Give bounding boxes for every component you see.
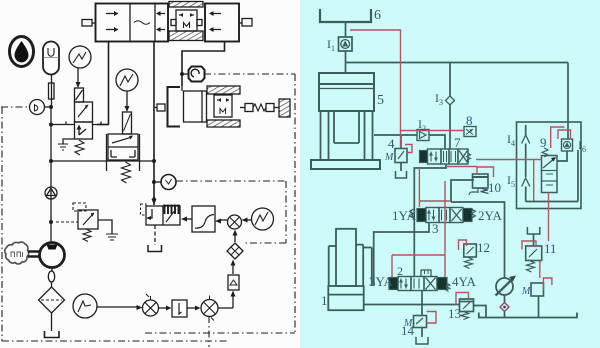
svg-text:2YA: 2YA xyxy=(478,208,502,223)
svg-text:2: 2 xyxy=(422,124,426,133)
svg-text:2: 2 xyxy=(397,264,403,278)
svg-text:12: 12 xyxy=(477,240,490,255)
svg-text:5: 5 xyxy=(511,180,515,189)
svg-text:4YA: 4YA xyxy=(452,274,476,289)
svg-text:11: 11 xyxy=(544,241,557,256)
svg-text:3YA: 3YA xyxy=(369,274,393,289)
svg-text:10: 10 xyxy=(488,180,501,195)
svg-text:M: M xyxy=(521,286,531,297)
svg-text:8: 8 xyxy=(466,113,473,128)
svg-text:9: 9 xyxy=(540,135,547,150)
svg-text:5: 5 xyxy=(377,93,384,108)
svg-text:4: 4 xyxy=(388,136,395,151)
svg-text:6: 6 xyxy=(582,145,586,154)
svg-text:M: M xyxy=(403,318,413,329)
svg-text:6: 6 xyxy=(374,8,381,23)
svg-text:1: 1 xyxy=(321,293,328,308)
svg-text:3: 3 xyxy=(432,221,439,236)
svg-text:7: 7 xyxy=(454,135,461,150)
svg-text:M: M xyxy=(384,152,394,163)
svg-text:3: 3 xyxy=(439,98,443,107)
svg-text:1: 1 xyxy=(331,44,335,53)
svg-text:1YA: 1YA xyxy=(392,208,416,223)
svg-text:4: 4 xyxy=(511,139,515,148)
svg-text:13: 13 xyxy=(448,306,461,321)
